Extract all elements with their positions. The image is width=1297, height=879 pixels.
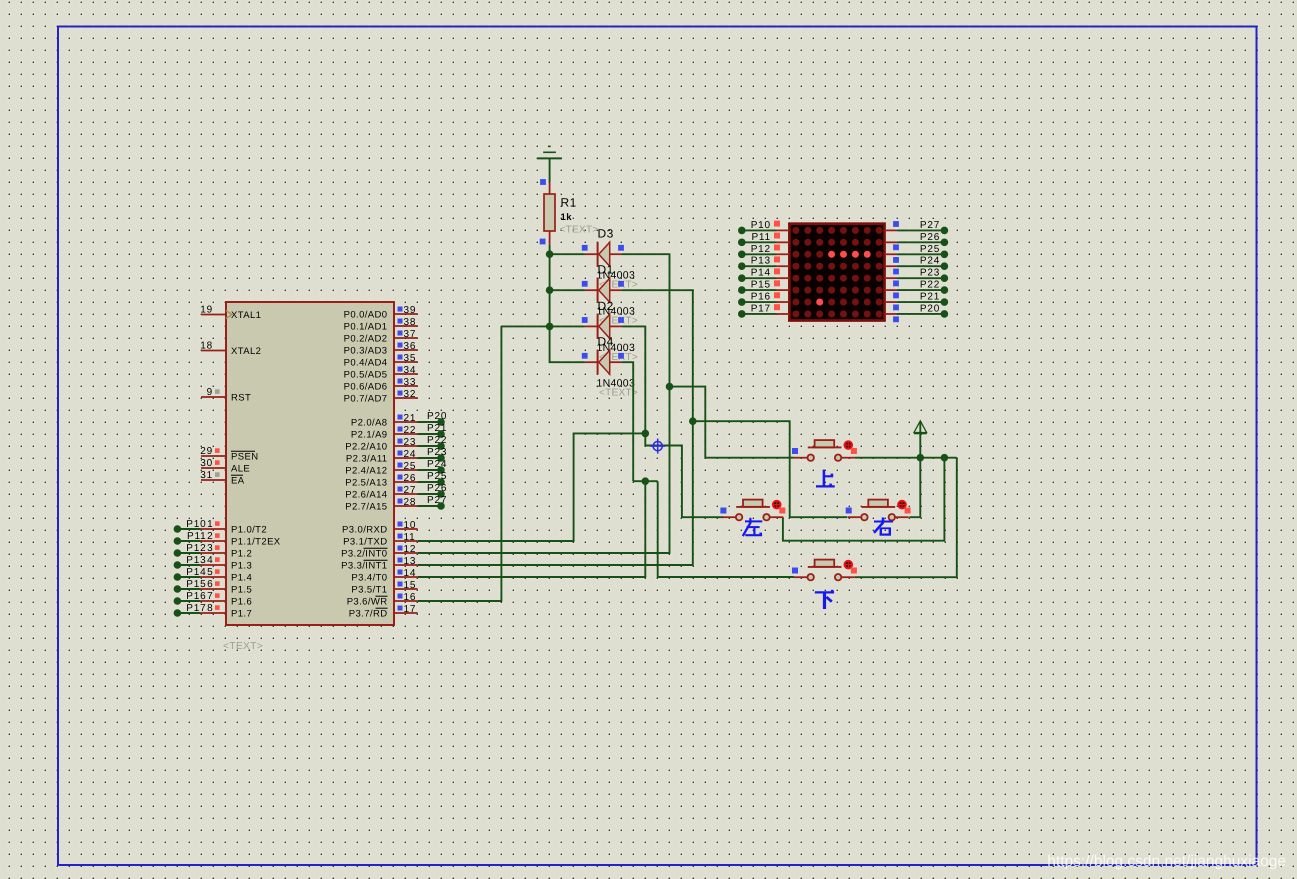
pin 7 P1.6 / node P16 (174, 591, 253, 608)
R1 top pin (549, 182, 551, 194)
svg-text:14: 14 (404, 568, 417, 579)
junction R1/D3 (546, 250, 554, 258)
svg-text:P22: P22 (427, 435, 447, 446)
node P15 matrix row (738, 280, 789, 294)
svg-text:P1.1/T2EX: P1.1/T2EX (231, 537, 281, 548)
svg-text:31: 31 (200, 470, 213, 481)
svg-text:P23: P23 (920, 268, 940, 279)
svg-text:<TEXT>: <TEXT> (560, 225, 599, 236)
svg-text:32: 32 (404, 389, 417, 400)
svg-text:24: 24 (404, 449, 417, 460)
wire rail to LEFT button (783, 458, 945, 541)
svg-text:P1.0/T2: P1.0/T2 (231, 525, 267, 536)
svg-text:P27: P27 (920, 220, 940, 231)
svg-text:36: 36 (404, 341, 417, 352)
svg-text:<TEXT>: <TEXT> (599, 388, 638, 399)
pin 18 XTAL2 (200, 341, 261, 358)
pin 17 P3.7/RD (349, 604, 418, 620)
pin 6 P1.5 / node P15 (174, 579, 253, 596)
node P16 matrix row (738, 292, 789, 306)
svg-text:15: 15 (404, 580, 417, 591)
pin 38 P0.1/AD1 (344, 317, 418, 333)
svg-text:XTAL1: XTAL1 (231, 310, 261, 321)
junction VCC rail (917, 454, 925, 462)
svg-text:P3.4/T0: P3.4/T0 (351, 573, 387, 584)
svg-text:P26: P26 (427, 483, 447, 494)
svg-text:P3.5/T1: P3.5/T1 (351, 585, 387, 596)
svg-text:P0.0/AD0: P0.0/AD0 (344, 310, 388, 321)
svg-text:19: 19 (200, 305, 213, 316)
diode D4 1N4003 (582, 335, 638, 399)
pin 21 P2.0/A8 / node P20 (351, 411, 447, 429)
svg-text:P15: P15 (751, 280, 771, 291)
IC U1 80C51 MCU body (226, 302, 394, 625)
svg-text:8: 8 (207, 603, 213, 614)
svg-text:P21: P21 (920, 292, 940, 303)
svg-text:37: 37 (404, 329, 417, 340)
svg-text:P12: P12 (186, 543, 206, 554)
svg-text:13: 13 (404, 556, 417, 567)
svg-text:P0.3/AD3: P0.3/AD3 (344, 346, 388, 357)
svg-text:39: 39 (404, 305, 417, 316)
svg-text:EA: EA (231, 476, 245, 487)
svg-text:D1: D1 (598, 263, 614, 277)
pin 39 P0.0/AD0 (344, 305, 418, 321)
LED matrix dots (792, 227, 882, 318)
wire net P3.1 / D2 / button LEFT (418, 433, 646, 541)
svg-text:https://blog.csdn.net/jianghux: https://blog.csdn.net/jianghuxiaoge (1047, 853, 1286, 870)
svg-text:P21: P21 (427, 423, 447, 434)
svg-text:35: 35 (404, 353, 417, 364)
node P10 matrix row (738, 220, 789, 234)
svg-text:P2.7/A15: P2.7/A15 (345, 502, 387, 513)
pin 35 P0.4/AD4 (344, 353, 418, 369)
svg-text:P10: P10 (751, 220, 771, 231)
node P22 matrix column (885, 280, 949, 299)
wire to D3 cathode (550, 253, 585, 255)
svg-text:33: 33 (404, 377, 417, 388)
node P12 matrix row (738, 244, 789, 258)
svg-text:38: 38 (404, 317, 417, 328)
push button DOWN (xia) (792, 560, 857, 581)
pin 30 ALE (200, 458, 250, 475)
pin 26 P2.5/A13 / node P25 (345, 471, 447, 489)
pin 8 P1.7 / node P17 (174, 603, 253, 620)
push button RIGHT (you) (846, 500, 911, 521)
svg-text:16: 16 (404, 592, 417, 603)
wire ground to R1 (549, 158, 551, 182)
node P25 matrix column (885, 244, 949, 263)
svg-text:D3: D3 (598, 227, 614, 241)
pin 14 P3.4/T0 (351, 568, 417, 584)
pin 22 P2.1/A9 / node P21 (351, 423, 447, 441)
svg-text:P16: P16 (186, 591, 206, 602)
svg-text:P3.6/WR: P3.6/WR (347, 597, 388, 608)
svg-text:P0.2/AD2: P0.2/AD2 (344, 334, 388, 345)
svg-text:P2.6/A14: P2.6/A14 (345, 490, 387, 501)
pin 10 P3.0/RXD (342, 520, 418, 536)
svg-text:P25: P25 (427, 471, 447, 482)
pin 9 RST (201, 387, 251, 404)
wire rail to RIGHT button (909, 458, 920, 518)
svg-text:P1.4: P1.4 (231, 573, 252, 584)
node P11 matrix row (738, 232, 789, 246)
pin 15 P3.5/T1 (351, 580, 417, 596)
svg-text:RST: RST (231, 393, 251, 404)
svg-text:1: 1 (207, 519, 213, 530)
svg-text:P22: P22 (920, 280, 940, 291)
pin 28 P2.7/A15 / node P27 (345, 495, 447, 513)
svg-text:ALE: ALE (231, 464, 250, 475)
junction node D (P3.4 net) (642, 477, 650, 485)
svg-text:P14: P14 (751, 268, 771, 279)
wire button common rail (855, 457, 957, 459)
svg-text:P13: P13 (751, 256, 771, 267)
svg-text:11: 11 (404, 532, 416, 543)
pin 34 P0.5/AD5 (344, 365, 418, 381)
svg-text:5: 5 (207, 567, 213, 578)
ground symbol (537, 146, 562, 158)
svg-text:30: 30 (200, 458, 213, 469)
svg-text:P10: P10 (186, 519, 206, 530)
pin 24 P2.3/A11 / node P23 (346, 447, 447, 465)
svg-text:P14: P14 (186, 567, 206, 578)
junction node A (P3.1 net) (642, 430, 650, 438)
svg-text:10: 10 (404, 520, 417, 531)
svg-text:R1: R1 (561, 196, 577, 210)
svg-text:12: 12 (404, 544, 417, 555)
svg-text:27: 27 (404, 485, 417, 496)
node P27 matrix column (885, 220, 949, 234)
node P13 matrix row (738, 256, 789, 270)
pin 27 P2.6/A14 / node P26 (345, 483, 447, 501)
svg-text:P2.3/A11: P2.3/A11 (346, 454, 388, 465)
pin 5 P1.4 / node P14 (174, 567, 253, 584)
pin 19 XTAL1 (200, 305, 261, 322)
push button LEFT (zuo) (720, 500, 785, 521)
svg-text:P2.5/A13: P2.5/A13 (345, 478, 387, 489)
svg-text:28: 28 (404, 497, 417, 508)
junction R1/D1 (546, 286, 554, 294)
svg-text:P11: P11 (751, 232, 770, 243)
pin 31 EA (200, 470, 244, 487)
svg-text:XTAL2: XTAL2 (231, 346, 261, 357)
pin 16 P3.6/WR (347, 592, 418, 608)
diode D1 1N4003 (582, 263, 638, 327)
wire net P3.2 / D3 / button UP (418, 254, 670, 553)
R1 bottom pin (549, 231, 551, 245)
svg-text:25: 25 (404, 461, 417, 472)
pin 25 P2.4/A12 / node P24 (345, 459, 447, 477)
origin marker (650, 439, 665, 454)
LED dot-matrix display body (789, 224, 884, 321)
pin 12 P3.2/INT0 (341, 544, 418, 560)
svg-text:P23: P23 (427, 447, 447, 458)
svg-text:P1.5: P1.5 (231, 585, 252, 596)
svg-text:34: 34 (404, 365, 417, 376)
junction node C (P3.3 net) (689, 417, 697, 425)
svg-text:6: 6 (207, 579, 213, 590)
wire R1 to diode cathodes (vertical bus) (550, 245, 585, 362)
diode D2 1N4003 (582, 299, 638, 363)
pin 23 P2.2/A10 / node P22 (345, 435, 447, 453)
svg-text:<TEXT>: <TEXT> (223, 641, 263, 652)
junction VCC rail 2 (941, 454, 949, 462)
svg-text:P17: P17 (186, 603, 206, 614)
svg-text:P11: P11 (187, 531, 206, 542)
svg-text:P0.4/AD4: P0.4/AD4 (344, 358, 388, 369)
svg-text:23: 23 (404, 437, 417, 448)
svg-text:P16: P16 (751, 292, 771, 303)
svg-text:P3.2/INT0: P3.2/INT0 (341, 549, 387, 560)
pin 4 P1.3 / node P13 (174, 555, 253, 572)
junction R1/D2 (546, 323, 554, 331)
svg-text:P3.0/RXD: P3.0/RXD (342, 525, 387, 536)
node P14 matrix row (738, 268, 789, 282)
pin 37 P0.2/AD2 (344, 329, 418, 345)
svg-text:P2.0/A8: P2.0/A8 (351, 418, 388, 429)
svg-text:P12: P12 (751, 244, 771, 255)
pin 29 PSEN (200, 446, 258, 463)
svg-text:2: 2 (207, 531, 213, 542)
svg-text:P1.2: P1.2 (231, 549, 252, 560)
svg-text:D4: D4 (598, 335, 614, 349)
diode D3 1N4003 (582, 227, 638, 291)
resistor R1 (544, 194, 555, 231)
svg-text:PSEN: PSEN (231, 452, 258, 463)
svg-text:7: 7 (207, 591, 213, 602)
svg-text:P27: P27 (427, 495, 447, 506)
svg-text:P1.6: P1.6 (231, 597, 252, 608)
node label UP (shang) (816, 470, 835, 487)
pin 36 P0.3/AD3 (344, 341, 418, 357)
svg-text:18: 18 (200, 341, 213, 352)
svg-text:P3.1/TXD: P3.1/TXD (343, 537, 387, 548)
svg-text:P2.2/A10: P2.2/A10 (345, 442, 387, 453)
wire rail to DOWN button (855, 458, 957, 578)
svg-text:1k: 1k (561, 212, 573, 223)
node label DOWN (xia) (815, 590, 834, 609)
clock input marker XTAL1 (226, 311, 232, 319)
wire P3.6 to R1 node (501, 325, 549, 327)
svg-text:17: 17 (404, 604, 417, 615)
svg-text:P3.7/RD: P3.7/RD (349, 609, 388, 620)
svg-text:P20: P20 (920, 303, 940, 314)
pin 32 P0.7/AD7 (344, 389, 418, 405)
push button UP (shang) (792, 440, 857, 461)
svg-text:P0.6/AD6: P0.6/AD6 (344, 382, 388, 393)
svg-text:P13: P13 (186, 555, 206, 566)
wire to D2 cathode (550, 325, 585, 327)
pin 2 P1.1 / node P11 (174, 531, 281, 548)
svg-text:P2.1/A9: P2.1/A9 (351, 430, 388, 441)
wire net P3.4 / D4 / button DOWN (418, 481, 646, 577)
junction node B (P3.2 net) (666, 383, 674, 391)
svg-text:P26: P26 (920, 232, 940, 243)
pin 33 P0.6/AD6 (344, 377, 418, 393)
svg-text:P24: P24 (427, 459, 447, 470)
node P21 matrix column (885, 292, 949, 311)
svg-text:P15: P15 (186, 579, 206, 590)
node P20 matrix column (885, 303, 949, 322)
wire net P3.3 / D1 / button RIGHT (418, 290, 693, 565)
wire VCC to button common (919, 422, 921, 458)
node P24 matrix column (885, 256, 949, 275)
svg-text:P25: P25 (920, 244, 940, 255)
svg-text:P3.3/INT1: P3.3/INT1 (341, 561, 387, 572)
node P17 matrix row (738, 303, 789, 317)
svg-text:21: 21 (404, 413, 417, 424)
svg-text:P1.7: P1.7 (231, 609, 252, 620)
svg-text:29: 29 (200, 446, 213, 457)
svg-text:26: 26 (404, 473, 417, 484)
svg-text:P17: P17 (751, 303, 771, 314)
wire to D1 cathode (550, 289, 585, 291)
node P23 matrix column (885, 268, 949, 287)
power symbol VCC (914, 421, 927, 433)
pin 13 P3.3/INT1 (341, 556, 418, 572)
svg-text:P1.3: P1.3 (231, 561, 252, 572)
svg-text:P0.5/AD5: P0.5/AD5 (344, 370, 388, 381)
node P26 matrix column (885, 232, 949, 250)
svg-text:P20: P20 (427, 411, 447, 422)
svg-text:D2: D2 (598, 299, 614, 313)
svg-text:P2.4/A12: P2.4/A12 (345, 466, 387, 477)
svg-text:3: 3 (207, 543, 213, 554)
pin 11 P3.1/TXD (343, 532, 418, 548)
node label RIGHT (you) (874, 518, 893, 536)
svg-text:P0.7/AD7: P0.7/AD7 (344, 394, 388, 405)
svg-text:P0.1/AD1: P0.1/AD1 (344, 322, 388, 333)
svg-text:22: 22 (404, 425, 417, 436)
svg-text:9: 9 (207, 387, 213, 398)
pin 1 P1.0 / node P10 (174, 519, 267, 536)
pin 3 P1.2 / node P12 (174, 543, 253, 560)
node label LEFT (zuo) (743, 518, 763, 536)
svg-text:P24: P24 (920, 256, 940, 267)
svg-text:4: 4 (207, 555, 213, 566)
